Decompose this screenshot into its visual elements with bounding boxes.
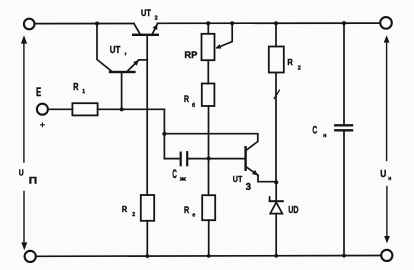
svg-text:2: 2	[155, 15, 158, 21]
svg-text:е: е	[192, 213, 195, 219]
svg-text:н: н	[323, 133, 326, 139]
svg-text:+: +	[40, 120, 45, 130]
svg-text:R: R	[184, 94, 189, 104]
svg-text:UD: UD	[288, 205, 298, 216]
svg-text:E: E	[36, 87, 41, 99]
svg-text:R: R	[73, 82, 79, 93]
svg-text:R: R	[287, 57, 293, 67]
svg-text:U: U	[19, 169, 24, 178]
svg-text:2: 2	[132, 212, 135, 218]
svg-text:C: C	[172, 167, 177, 181]
svg-text:C: C	[312, 125, 317, 137]
svg-text:UT: UT	[110, 45, 121, 56]
svg-text:UT: UT	[141, 8, 151, 18]
svg-text:б: б	[192, 102, 195, 109]
svg-text:ж: ж	[178, 176, 186, 182]
svg-text:3: 3	[246, 182, 252, 193]
svg-text:R: R	[122, 205, 128, 214]
svg-text:П: П	[29, 176, 37, 186]
svg-text:,: ,	[124, 47, 126, 56]
svg-text:1: 1	[82, 89, 85, 95]
svg-text:н: н	[388, 176, 391, 182]
svg-text:U: U	[380, 169, 386, 180]
svg-text:RP: RP	[184, 50, 197, 60]
svg-text:2: 2	[298, 66, 301, 72]
svg-text:UT: UT	[233, 175, 243, 184]
svg-text:R: R	[184, 205, 189, 216]
